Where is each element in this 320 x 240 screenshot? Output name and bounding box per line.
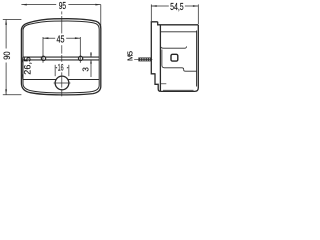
side view tick at flange back	[160, 83, 166, 85]
lens lower edge line	[23, 79, 99, 81]
dim 90 arrows	[5, 19, 7, 94]
svg-text:45: 45	[57, 35, 65, 46]
side view back inner edge	[196, 31, 198, 87]
side view lower left profile	[151, 74, 161, 92]
vertical centerline front view	[61, 11, 63, 96]
dim 26,5 arrows	[21, 57, 23, 79]
dim 95 arrows	[21, 4, 100, 6]
side view bottom line	[161, 88, 199, 92]
dim 54,5 arrows	[151, 5, 198, 7]
lamp front view inner (lens rim) outline	[23, 21, 99, 93]
side view flange	[151, 22, 157, 74]
dim 16 arrows	[55, 67, 68, 69]
svg-text:16: 16	[58, 63, 64, 74]
dim 3 line	[90, 52, 92, 77]
side view inner bottom line	[163, 89, 194, 91]
side view cavity line	[160, 45, 186, 48]
side view back outer edge	[197, 25, 199, 88]
dim 45 arrows	[43, 37, 80, 39]
seam line upper	[23, 56, 99, 58]
circle d16	[55, 76, 69, 90]
seam line lower	[23, 59, 99, 61]
svg-text:3: 3	[81, 67, 90, 72]
side view square connector	[171, 54, 178, 61]
dim 16 ext lines	[55, 65, 69, 76]
side view inner top line	[160, 31, 196, 33]
M5 stud thread hatch	[140, 58, 149, 61]
hole right	[79, 56, 83, 60]
dim 3 arrows	[90, 54, 92, 64]
side view inner bracket	[162, 50, 197, 72]
svg-text:95: 95	[59, 1, 67, 12]
svg-text:M5: M5	[125, 51, 134, 61]
side view flange back edge	[159, 25, 161, 92]
hole centerline stubs	[43, 55, 80, 63]
dim 54,5 line	[151, 4, 198, 24]
dim 26,5 line	[21, 57, 23, 79]
dim 90 line	[3, 20, 22, 95]
dim 45 line	[43, 37, 80, 56]
circle d16 horizontal centerline	[54, 82, 71, 84]
hole left	[41, 56, 45, 60]
lamp front view outer outline	[21, 19, 100, 95]
M5 stud centerline	[134, 58, 152, 60]
svg-text:90: 90	[2, 51, 13, 59]
dim 95 line	[21, 5, 100, 29]
svg-text:26,5: 26,5	[23, 57, 33, 75]
M5 stud body	[139, 58, 152, 61]
side view top step	[158, 22, 199, 25]
svg-text:54,5: 54,5	[170, 2, 184, 13]
